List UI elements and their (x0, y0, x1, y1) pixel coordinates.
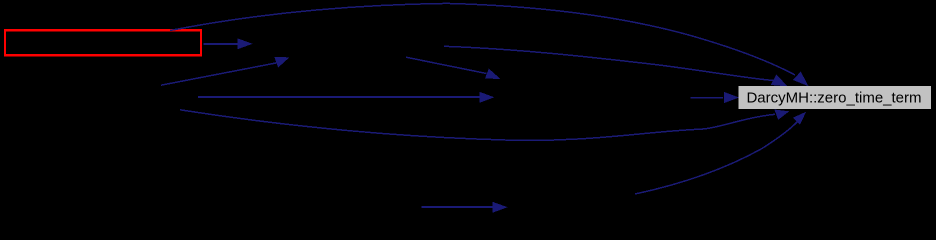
edge E7 (N2 bottom to hidden node N3 left) (406, 57, 487, 73)
edge E9 (hidden caller to hidden node N4) (421, 206, 493, 208)
node N1 (truncated caller, red border) (5, 30, 201, 55)
arrowhead E4 (274, 57, 289, 67)
arrowhead E9 (493, 202, 508, 213)
arrowhead E3 (238, 38, 253, 49)
edge E4 (hidden caller to N2 bottom) (161, 63, 278, 86)
edge E11 (hidden node N3 to central node left) (690, 97, 723, 99)
central node DarcyMH::zero_time_term (738, 86, 931, 109)
edge E6 (N2 right to central node top) (444, 46, 774, 80)
arrowhead E11 (724, 92, 739, 103)
svg-text:DarcyMH::zero_time_term: DarcyMH::zero_time_term (746, 90, 921, 107)
arrowhead E6 (771, 74, 788, 86)
arrowhead E7 (485, 69, 501, 79)
arrowhead E10 (793, 112, 807, 125)
arrowhead E5 (480, 92, 495, 103)
edge E5 (hidden caller long horizontal to hidden node N3) (198, 96, 481, 98)
edge E8 (hidden caller bottom sweep to central node bottom) (180, 110, 775, 141)
arrowhead E8 (774, 110, 789, 120)
edge E3 (N1 right to hidden node N2) (204, 43, 240, 45)
edge E1 (N1 top arc to central node) (170, 3, 795, 75)
arrowhead E1 (793, 72, 809, 87)
edge E10 (hidden node N4 up to central node bottom) (635, 122, 798, 195)
